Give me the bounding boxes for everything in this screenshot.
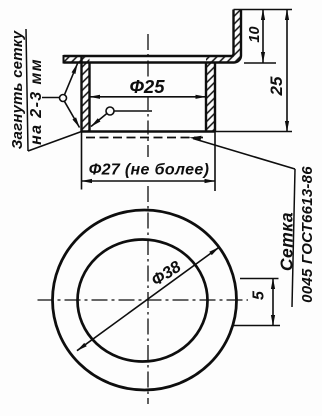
hatch right wall flange and skirt <box>206 10 241 132</box>
flange left end <box>63 55 65 64</box>
svg-text:Ф25: Ф25 <box>129 76 165 97</box>
dimension d25 line <box>90 96 207 98</box>
svg-text:10: 10 <box>247 26 263 42</box>
inner circle <box>78 240 208 362</box>
flange top edge <box>64 10 234 57</box>
note bend mesh underline bar <box>26 29 28 151</box>
extension line d27 left <box>81 132 83 190</box>
dimension 10 line <box>262 10 264 63</box>
note dash from text to circle A <box>42 97 60 99</box>
extension line dim10 bottom <box>244 62 276 64</box>
mesh label leader arrow <box>193 139 295 170</box>
left wall outer edge <box>80 56 82 132</box>
bottom edge <box>82 130 216 132</box>
hatch left flange and wall <box>64 56 90 132</box>
leader arrow A upper <box>65 64 78 95</box>
svg-text:Сетка: Сетка <box>277 212 297 271</box>
extension line dim5 top <box>240 278 279 280</box>
skirt top edge and extension line <box>234 9 293 11</box>
leader circle B <box>106 107 114 115</box>
extension line d27 right <box>214 132 216 192</box>
mesh dashed line <box>86 137 206 139</box>
svg-text:Загнуть сетку: Загнуть сетку <box>9 30 26 149</box>
dimension 25 line <box>286 10 288 132</box>
leader arrow A lower <box>64 101 79 127</box>
extension line dim5 bottom <box>234 325 280 327</box>
svg-text:Ф27 (не более): Ф27 (не более) <box>89 162 210 179</box>
svg-text:25: 25 <box>267 76 286 96</box>
centerline horizontal <box>38 299 249 301</box>
dimension d27 line <box>82 180 216 182</box>
right wall outer edge <box>214 63 216 132</box>
leader arrow B <box>91 114 107 127</box>
left wall inner edge <box>88 63 90 132</box>
mesh label bar <box>292 169 295 307</box>
skirt right edge and flange bottom edge <box>64 10 242 63</box>
dimension 5 line <box>272 279 274 326</box>
centerline vertical <box>147 34 149 77</box>
leader B tail line <box>114 110 152 112</box>
note bend mesh leader <box>28 132 82 152</box>
right wall inner edge <box>205 63 207 132</box>
dimension d38 line <box>77 247 219 350</box>
bottom extension line to dim 25 <box>215 131 292 133</box>
outer circle <box>53 210 237 390</box>
svg-text:0045 ГОСТ6613-86: 0045 ГОСТ6613-86 <box>299 166 316 303</box>
svg-text:на 2-3 мм: на 2-3 мм <box>28 58 45 145</box>
svg-text:5: 5 <box>251 290 268 300</box>
leader circle A <box>60 95 67 102</box>
